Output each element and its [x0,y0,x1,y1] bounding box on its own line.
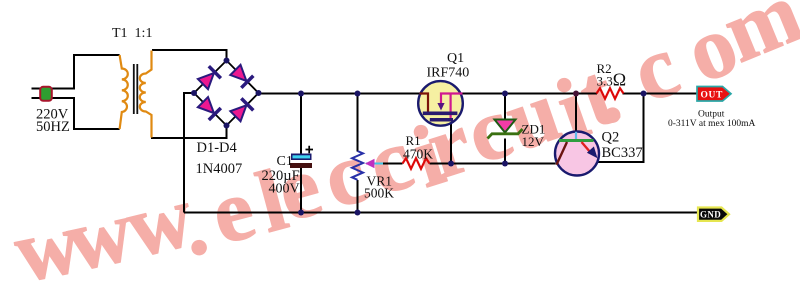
connector 220V input [40,87,52,101]
C1 plus sign [306,146,314,153]
Q2 emitter arrowhead [587,147,598,159]
transformer T1 primary winding [120,55,128,129]
resistor R2 zigzag [597,88,624,99]
wire primary bottom [74,97,120,129]
svg-text:470K: 470K [403,147,433,162]
terminal GND [698,208,729,221]
wire AC input pin L [32,88,75,90]
node bridge left [191,90,197,96]
svg-text:1N4007: 1N4007 [196,161,243,177]
svg-text:Q1: Q1 [447,51,464,66]
Q1 channel bar 2 [430,118,453,122]
wire R1 to Q2 collector [430,163,556,165]
wire secondary top to bridge [152,50,227,61]
svg-text:D1-D4: D1-D4 [197,140,238,156]
svg-text:500K: 500K [364,186,394,201]
terminal OUT [697,87,731,102]
Q2 emitter lead [582,142,591,153]
Q1 gate structure (magenta) [441,94,463,104]
potentiometer VR1 zigzag [352,151,363,180]
svg-text:Output: Output [698,110,725,120]
MOSFET Q1 body [418,81,463,126]
node R1 right / Q1 gate [448,161,454,167]
svg-text:C1: C1 [277,154,293,169]
svg-text:BC337: BC337 [602,145,643,161]
wire Q2 emitter to rail [598,94,644,163]
capacitor C1 plate bottom [290,163,312,168]
wire ZD1 bottom lead [504,139,506,164]
node Q2 base top [573,91,579,97]
transformer T1 core [134,64,138,114]
wire secondary bottom to bridge [151,126,227,139]
Q2 collector lead [557,142,568,165]
node VR1 top [355,91,361,97]
node ZD1 top [502,91,508,97]
wire VR1 top lead [357,94,359,152]
wire Q1 gate lead [450,122,452,164]
bridge diode D3 (bottom-left) [197,96,221,120]
wire top rail Q1 to R2 [463,93,598,95]
svg-text:12V: 12V [522,134,545,149]
svg-text:IRF740: IRF740 [427,65,470,80]
Q1 drain lead (maroon) [420,94,429,112]
svg-text:GND: GND [700,209,721,219]
Q2 base lead (cyan) [575,132,577,139]
svg-text:400V: 400V [269,182,300,197]
wire primary top [74,55,120,90]
node C1 top [298,91,304,97]
wire wiper to R1 [383,163,403,165]
wire bridge left to ground rail [184,93,194,213]
bridge diode D1 (top-left) [197,66,221,90]
svg-text:50HZ: 50HZ [36,119,70,135]
node bridge bottom [224,123,230,129]
transistor Q2 body [555,132,599,176]
svg-text:0-311V at mex 100mA: 0-311V at mex 100mA [668,119,755,129]
wire C1 top lead [300,94,302,155]
wire C1 bottom lead [300,168,302,213]
svg-text:c: c [620,17,691,122]
bridge diode D2 (top-right) [229,64,253,88]
node C1 bottom [298,210,304,216]
wire top rail bridge to Q1 [259,93,420,95]
zener diode ZD1 triangle [495,120,516,133]
transformer T1 secondary winding [140,51,152,138]
wire VR1 wiper cyan segment [366,163,384,165]
ZD1 zener bar [488,129,523,139]
wire AC input pin N [32,97,75,99]
node bridge top [224,58,230,64]
node ZD1 bottom [502,161,508,167]
wire R2 to OUT [623,93,698,95]
wire ZD1 top lead [504,94,506,120]
svg-text:Q2: Q2 [602,130,620,146]
wire bridge diamond edges [194,61,259,126]
resistor R1 zigzag [403,158,430,169]
wire VR1 bottom lead [357,180,359,213]
wire bottom ground rail [184,212,698,214]
node VR1 bottom [355,210,361,216]
Q1 channel bar 1 [423,112,458,116]
Q2 base bar (green) [559,139,594,142]
bridge diode D4 (bottom-right) [229,98,253,122]
VR1 wiper arrow [365,159,375,169]
wire Q2 base lead [575,94,577,132]
node bridge right [256,90,262,96]
svg-text:OUT: OUT [701,90,723,100]
capacitor C1 plate top [291,154,312,161]
svg-text:T1 1:1: T1 1:1 [112,26,152,41]
node R2 right [641,91,647,97]
